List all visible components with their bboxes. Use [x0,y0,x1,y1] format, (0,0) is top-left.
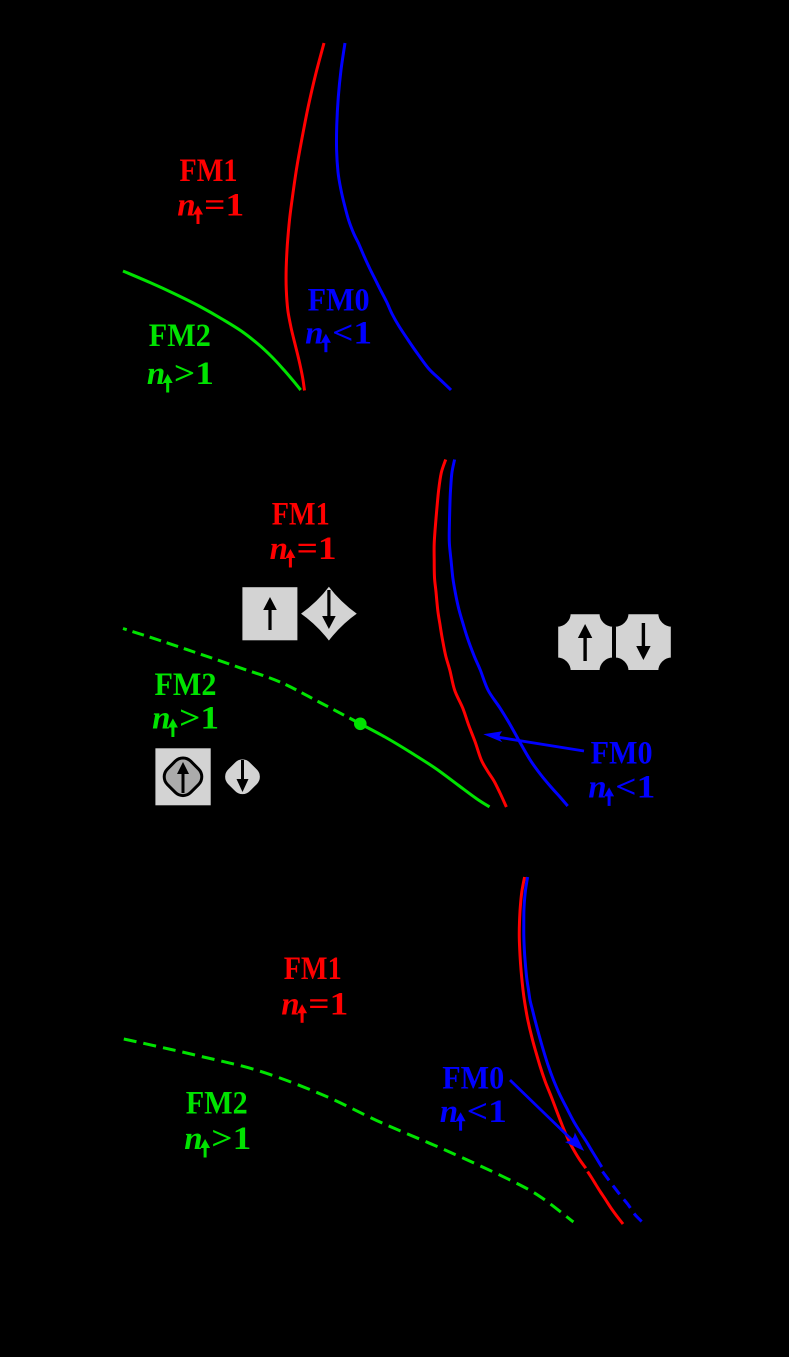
panel-a FM2 boundary (green curve) [123,271,301,390]
svg-text:n: n [305,316,323,352]
svg-text:n: n [440,1094,458,1130]
svg-text:n: n [177,188,195,224]
svg-text:FM1: FM1 [272,497,330,533]
svg-text:FM1: FM1 [180,153,238,189]
svg-text:FM2: FM2 [155,667,217,703]
svg-text:<1: <1 [332,316,372,352]
panel-b blue annotation arrow [483,731,584,751]
svg-text:=1: =1 [297,531,337,567]
panel-b label FM2 n>1 [152,667,219,737]
svg-text:n: n [184,1121,202,1157]
panel-c FM2 dashed green boundary [124,1039,574,1222]
panel-b green tricritical dot [354,718,367,731]
panel-a FM1/FM0 phase boundary (red curve) [286,43,324,391]
panel-c FM0 boundary solid (blue curve) [524,877,602,1167]
svg-text:FM0: FM0 [308,283,370,319]
panel-b icon: gray square orbital with up spin [241,586,298,641]
panel-b icon: notched square orbital with down spin [615,613,672,671]
panel-b FM0 boundary (blue curve) [449,460,568,807]
svg-text:n: n [147,356,165,392]
panel-a FM0 boundary (blue curve) [336,43,451,390]
svg-text:FM0: FM0 [591,736,653,772]
svg-text:<1: <1 [615,769,655,805]
svg-text:>1: >1 [174,356,214,392]
svg-text:>1: >1 [179,701,219,737]
panel-c label FM1 n=1 [281,951,348,1023]
svg-text:n: n [152,701,170,737]
panel-a label FM1 n=1 [177,153,244,224]
panel-c FM1 boundary upper (red curve) [519,877,586,1168]
svg-text:=1: =1 [204,188,244,224]
svg-text:FM2: FM2 [186,1086,248,1122]
panel-c label FM0 n<1 [440,1061,507,1131]
panel-b icon: concave diamond orbital with down spin [299,585,358,642]
svg-text:FM1: FM1 [284,951,342,987]
panel-b label FM0 n<1 [588,736,655,806]
panel-c FM1 boundary lower (red curve) [588,1172,623,1225]
svg-text:FM0: FM0 [442,1061,504,1097]
panel-b icon: notched square orbital with up spin [557,613,613,671]
panel-b FM2 solid green boundary [360,724,489,807]
panel-b icon: gray square with dark rounded-diamond orbital, up spin [154,747,212,806]
panel-b label FM1 n=1 [270,497,337,568]
panel-c label FM2 n>1 [184,1086,251,1158]
panel-c FM0 boundary dashed (blue curve) [603,1172,645,1225]
svg-text:n: n [588,769,606,805]
panel-a label FM0 n<1 [305,283,372,353]
svg-text:<1: <1 [467,1094,507,1130]
panel-a label FM2 n>1 [147,318,214,393]
svg-text:n: n [270,531,288,567]
svg-text:FM2: FM2 [149,318,211,354]
panel-b FM1 boundary (red curve) [434,460,506,808]
panel-b icon: light rounded-diamond orbital with down spin [219,753,266,800]
svg-text:=1: =1 [308,986,348,1022]
svg-text:n: n [281,986,299,1022]
svg-text:>1: >1 [211,1121,251,1157]
panel-b FM2 dashed green boundary [123,629,360,724]
panel-c blue annotation arrow [510,1080,584,1151]
